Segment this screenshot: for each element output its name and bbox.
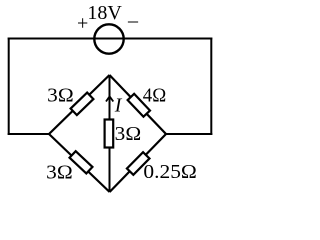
resistor R2 body (4 ohm, top-right) xyxy=(128,94,150,117)
svg-text:0.25Ω: 0.25Ω xyxy=(143,161,197,183)
wire left vertical xyxy=(8,38,10,136)
wire bridge edge bottom-right (node C to node D) xyxy=(110,134,166,192)
resistor R4 body (3 ohm, bottom-left) xyxy=(70,151,93,173)
current arrow I head xyxy=(106,96,113,101)
svg-text:3Ω: 3Ω xyxy=(115,123,142,145)
resistor R1 body (3 ohm, top-left) xyxy=(71,93,94,115)
wire middle branch (node B to node D) xyxy=(109,75,111,192)
svg-text:I: I xyxy=(114,94,123,116)
wire bridge edge top-left (node A to node B) xyxy=(49,75,110,134)
wire bottom-right horizontal to bridge right node xyxy=(165,133,212,135)
svg-text:3Ω: 3Ω xyxy=(46,162,73,184)
svg-text:4Ω: 4Ω xyxy=(143,85,166,107)
svg-text:18V: 18V xyxy=(87,2,122,24)
resistor R3 body (3 ohm, middle) xyxy=(105,120,114,148)
wire bottom-left horizontal to bridge left node xyxy=(8,133,50,135)
svg-text:+: + xyxy=(77,13,88,35)
wire bridge edge top-right (node B to node C) xyxy=(110,75,167,134)
svg-text:–: – xyxy=(127,10,139,32)
svg-text:3Ω: 3Ω xyxy=(47,84,74,106)
voltage source V1 circle xyxy=(94,24,123,53)
resistor R5 body (0.25 ohm, bottom-right) xyxy=(127,152,150,175)
wire bridge edge bottom-left (node A to node D) xyxy=(49,134,110,192)
wire top from left corner through source to right corner xyxy=(8,38,213,40)
wire right vertical xyxy=(210,38,212,136)
